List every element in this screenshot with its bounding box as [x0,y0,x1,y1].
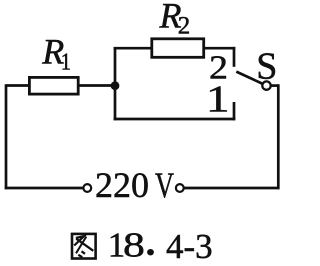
svg-text:1: 1 [206,79,230,121]
wire: switch contact 2 stub [233,47,236,67]
svg-text:8: 8 [123,225,145,264]
resistor R1 [29,77,78,94]
battery terminal right (open circle) [176,184,184,192]
battery terminal left (open circle) [83,184,91,192]
wire: pivot to right side [271,84,279,87]
svg-text:V: V [155,165,174,205]
wire: top rail left of R2 [114,47,152,50]
wire: left vertical side [5,84,8,189]
caption glyph 图 (drawn) [72,234,96,259]
svg-text:2: 2 [178,13,191,40]
wire: R1 right lead to junction [80,84,116,87]
wire: top rail right of R2 to corner [204,47,235,50]
switch S pivot (open circle) [262,81,270,89]
wire: bottom rail of parallel branch [114,118,236,121]
wire: inner-left vertical of parallel branch [114,47,117,120]
svg-text:220: 220 [95,165,149,205]
wire: switch contact 1 stub [233,102,236,120]
resistor R2 [152,39,204,58]
svg-text:1: 1 [61,48,71,75]
svg-text:4-3: 4-3 [166,227,213,266]
wire: right vertical side [277,84,280,189]
wire: left lead from R1 to left edge [6,84,29,87]
svg-text:S: S [256,46,277,88]
junction node (solid dot) [111,81,120,90]
wire: bottom right segment to battery terminal [184,187,279,190]
switch S blade [236,72,263,84]
wire: bottom left segment to battery terminal [5,187,84,190]
